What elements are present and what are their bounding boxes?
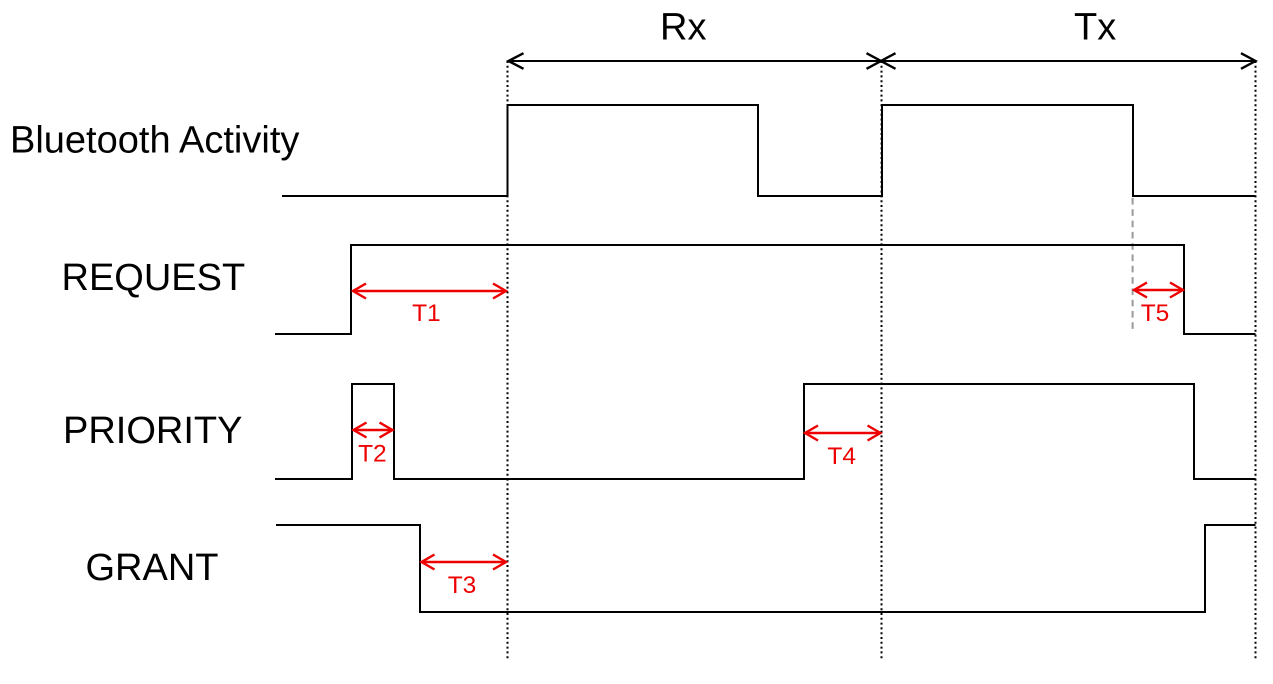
- gray dashed guide line at Bluetooth Tx fall: [1132, 198, 1134, 332]
- svg-text:T4: T4: [827, 443, 856, 470]
- svg-text:PRIORITY: PRIORITY: [63, 410, 242, 452]
- dimension arrow T3: [422, 555, 507, 570]
- dimension arrow T5: [1134, 283, 1183, 298]
- dimension arrow T4: [805, 426, 881, 441]
- svg-text:REQUEST: REQUEST: [62, 257, 246, 299]
- svg-text:Rx: Rx: [660, 7, 706, 49]
- svg-text:Tx: Tx: [1074, 7, 1116, 49]
- Tx span arrow: [881, 53, 1256, 69]
- waveform Bluetooth Activity: [282, 105, 1256, 196]
- waveform PRIORITY: [275, 384, 1256, 479]
- svg-text:T3: T3: [448, 572, 477, 599]
- svg-text:GRANT: GRANT: [86, 547, 219, 589]
- dimension arrow T2: [354, 423, 393, 438]
- dotted guide line at Rx start: [507, 61, 509, 660]
- svg-text:T5: T5: [1141, 300, 1170, 327]
- svg-text:T1: T1: [412, 300, 441, 327]
- dotted guide line at Tx end: [1255, 61, 1257, 660]
- dotted guide line at Rx/Tx boundary: [881, 61, 883, 660]
- waveform GRANT: [276, 525, 1256, 612]
- dimension arrow T1: [353, 284, 506, 299]
- waveform REQUEST: [275, 245, 1256, 334]
- svg-text:Bluetooth Activity: Bluetooth Activity: [10, 119, 299, 161]
- Rx span arrow: [509, 53, 882, 69]
- svg-text:T2: T2: [358, 441, 387, 468]
